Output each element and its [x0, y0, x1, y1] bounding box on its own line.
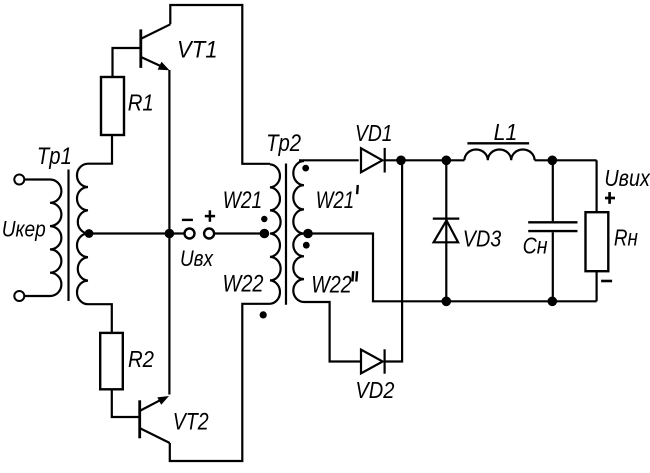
svg-text:Uвих: Uвих: [604, 165, 650, 191]
terminal bottom-left: [14, 291, 24, 301]
svg-text:W21: W21: [223, 187, 263, 214]
winding W21' label: [316, 185, 358, 214]
node Tp2 primary center tap: [260, 229, 270, 239]
svg-text:Rн: Rн: [614, 225, 638, 251]
node Cн bottom: [548, 297, 558, 307]
Tp1 secondary winding: [77, 164, 88, 305]
node emitter bus junction: [165, 229, 175, 239]
svg-text:R2: R2: [128, 346, 154, 372]
Tp2 core: [285, 164, 287, 305]
svg-text:W22: W22: [223, 270, 264, 297]
wire right branch down to Rн: [595, 160, 597, 212]
wire plus terminal to Tp2 center tap: [214, 232, 264, 234]
wire VD1 cathode to rail: [385, 159, 465, 161]
svg-text:Tp2: Tp2: [266, 130, 301, 157]
node VD3 bottom: [442, 297, 452, 307]
wire VD2 cathode up to VD1 output node: [385, 160, 403, 361]
node VD1 output: [396, 156, 406, 166]
capacitor Cн: [528, 160, 577, 301]
wire: [24, 178, 50, 180]
wire Tp1 sec top to R1: [88, 135, 112, 164]
node Tp1 center tap: [85, 229, 94, 238]
Tp1 core: [67, 170, 69, 302]
svg-text:W21: W21: [316, 187, 355, 214]
svg-text:VT1: VT1: [177, 37, 218, 64]
polarity dot W22'': [303, 242, 310, 249]
Tp2 secondary winding W21'/W22'': [293, 161, 304, 302]
svg-text:VT2: VT2: [173, 408, 209, 435]
inductor L1: [464, 150, 534, 161]
svg-text:W22: W22: [311, 271, 352, 298]
wire VT2 collector bottom loop to Tp2 primary bottom: [170, 304, 270, 461]
label plus: [205, 210, 215, 222]
node Tp2 secondary center tap: [303, 229, 313, 239]
diode VD2: [361, 349, 385, 373]
node VD3 top: [442, 156, 452, 166]
svg-text:Uкер: Uкер: [2, 216, 46, 241]
svg-text:R1: R1: [128, 90, 154, 116]
svg-text:L1: L1: [494, 119, 518, 145]
winding W22'' label: [311, 271, 357, 298]
resistor Rн: [586, 212, 609, 271]
node Cн top: [548, 156, 558, 166]
polarity dot W22: [260, 311, 267, 318]
diode VD1: [361, 148, 385, 173]
resistor R1: [101, 77, 124, 135]
svg-text:VD2: VD2: [355, 377, 394, 403]
wire VT1 collector top loop to Tp2 primary top: [170, 5, 270, 164]
label minus output: [601, 280, 612, 283]
wire Rн bottom to rail: [595, 271, 597, 301]
wire R1 top to VT1 base: [113, 48, 140, 77]
wire: [24, 295, 50, 297]
wire R2 bottom to VT2 base: [112, 389, 139, 417]
terminal top-left: [14, 175, 24, 185]
svg-text:VD1: VD1: [355, 120, 393, 146]
wire bottom rail: [308, 234, 597, 302]
polarity dot W21: [261, 216, 267, 222]
diode VD3: [433, 160, 460, 301]
Tp1 primary winding: [50, 180, 61, 297]
svg-text:Uвх: Uвх: [180, 246, 214, 271]
svg-text:VD3: VD3: [463, 226, 502, 252]
wire W22'' bottom to VD2: [304, 302, 361, 362]
transistor VT1: [141, 24, 171, 70]
wire W21' top to VD1: [299, 159, 359, 161]
transistor VT2: [140, 396, 170, 443]
inductor L1 overline: [467, 142, 529, 144]
terminal Uвх minus: [185, 229, 195, 239]
resistor R2: [100, 333, 123, 389]
wire VT1 emitter down bus: [168, 70, 170, 395]
polarity dot W21': [302, 165, 309, 172]
Tp2 primary winding W21/W22: [270, 164, 281, 303]
label plus output: [605, 192, 615, 204]
svg-text:Tp1: Tp1: [37, 143, 72, 170]
wire L1 to top right corner: [535, 159, 597, 161]
wire Tp1 sec bottom to R2: [88, 304, 112, 333]
wire center tap to junction: [89, 232, 185, 234]
terminal Uвх plus: [204, 229, 214, 239]
label minus: [182, 219, 193, 221]
svg-text:Cн: Cн: [523, 233, 548, 259]
